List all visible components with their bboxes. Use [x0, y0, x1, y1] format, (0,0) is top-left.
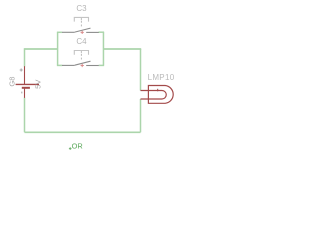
- switch C3 left terminal: [62, 31, 75, 33]
- lamp LMP10 top pin / inner top line: [141, 90, 163, 92]
- lamp LMP10 outer body: [148, 86, 173, 104]
- switch C4 left terminal: [62, 64, 75, 66]
- lamp LMP10 plus tick: [157, 89, 159, 92]
- battery minus sign (rotated): [21, 92, 23, 94]
- svg-text:G8: G8: [8, 77, 17, 87]
- wire: C3 left stub: [57, 31, 62, 33]
- svg-text:LMP10: LMP10: [148, 73, 175, 82]
- switch C3 dashed link: [80, 21, 82, 28]
- switch C4 right terminal: [86, 65, 99, 67]
- wire: C3 right stub: [99, 31, 105, 33]
- lamp LMP10 bottom pin / inner bottom line: [141, 98, 163, 100]
- battery G8 bottom pin: [24, 89, 26, 98]
- wire: C4 left stub: [57, 64, 62, 66]
- svg-text:C4: C4: [76, 37, 87, 46]
- wire: C4 right stub: [99, 64, 104, 66]
- wire: lamp top column: [140, 49, 142, 91]
- wire: battery bottom to bottom rail: [24, 98, 26, 133]
- battery plus sign: [20, 69, 23, 72]
- wire: top-left horizontal (battery column to parallel branch): [25, 48, 58, 50]
- switch C3 right terminal: [86, 31, 99, 33]
- lamp LMP10 inner arc: [162, 91, 166, 100]
- wire: lamp bottom column: [140, 99, 142, 132]
- battery G8 positive plate (long bar): [16, 83, 39, 85]
- svg-text:5V: 5V: [34, 79, 43, 89]
- switch C4 actuator bracket: [74, 51, 88, 55]
- switch C3 actuator bracket: [74, 17, 88, 21]
- net label anchor cross: [69, 147, 72, 150]
- switch C3 origin cross: [81, 31, 84, 34]
- wire: branch-left vertical: [57, 32, 59, 65]
- wire: top-right horizontal (branch to lamp column): [103, 48, 141, 50]
- svg-text:C3: C3: [76, 4, 87, 13]
- wire: branch-right vertical: [102, 32, 104, 65]
- switch C4 dashed link: [80, 54, 82, 61]
- svg-text:OR: OR: [72, 142, 83, 151]
- switch C4 lever: [75, 61, 91, 65]
- switch C4 origin cross: [81, 64, 84, 67]
- switch C3 lever: [75, 28, 91, 32]
- battery G8 top pin: [24, 66, 26, 84]
- wire: left column vertical down to battery + pin: [24, 48, 26, 66]
- wire: bottom rail horizontal: [25, 131, 141, 133]
- battery G8 negative plate (short thick bar): [22, 87, 30, 89]
